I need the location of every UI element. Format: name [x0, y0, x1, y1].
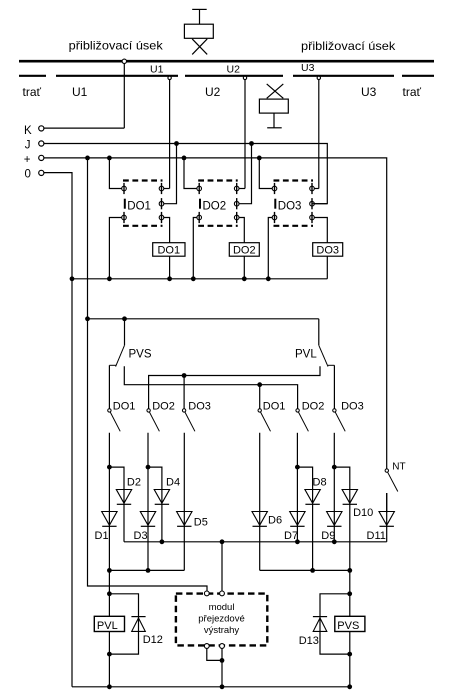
svg-text:DO3: DO3	[316, 245, 339, 257]
svg-text:D9: D9	[321, 530, 335, 542]
junction node (124.5,318.8)	[122, 316, 127, 321]
wire cathode bus	[124, 541, 387, 543]
diode D12	[131, 617, 145, 632]
svg-text:D8: D8	[313, 477, 327, 489]
wire bus PVS PVL	[88, 318, 319, 320]
relay coil PVS box	[335, 616, 365, 631]
wire PVS left throw	[108, 365, 110, 408]
pin DO3 left-bottom	[272, 212, 277, 223]
junction node (87.5,318.8)	[85, 316, 90, 321]
track line bottom segment U2	[185, 75, 283, 77]
junction node (109.4,157.9)	[107, 156, 112, 161]
wire DO1 right-bottom to box	[164, 218, 170, 243]
junction node (297.4,467.1)	[295, 465, 300, 470]
wire D3 column	[147, 433, 149, 571]
wire DO2 right-mid to J	[239, 144, 252, 204]
pin DO1 right-mid	[159, 198, 164, 209]
diode D8	[305, 490, 320, 505]
wire DO1 left-top to plus	[109, 158, 121, 189]
terminal module right-bottom	[220, 644, 225, 649]
junction node (109.4,654.1)	[107, 652, 112, 657]
wire DO1 left-bottom to rail	[109, 218, 121, 279]
pin DO3 right-mid	[310, 198, 315, 209]
wire NT to D11	[386, 493, 388, 513]
svg-text:K: K	[24, 125, 32, 137]
diode D7	[290, 512, 305, 527]
track line bottom segment U3	[293, 75, 394, 77]
junction node (334.3,467.1)	[332, 465, 337, 470]
junction node (312.6,570.4)	[310, 568, 315, 573]
svg-text:přibližovací úsek: přibližovací úsek	[301, 39, 396, 53]
junction node (87.5,157.9)	[85, 156, 90, 161]
box DO2	[229, 243, 259, 257]
junction node (184,157.9)	[182, 156, 187, 161]
wire DO1 right-mid to J	[164, 144, 177, 204]
svg-text:DO2: DO2	[302, 400, 325, 412]
terminal K	[39, 126, 44, 131]
svg-text:U3: U3	[361, 85, 377, 99]
svg-text:D10: D10	[353, 507, 373, 519]
svg-text:D2: D2	[127, 477, 141, 489]
junction node (259.3,157.9)	[257, 156, 262, 161]
junction node (334.3,541.8)	[332, 539, 337, 544]
diode D5	[177, 512, 192, 527]
terminal module right-top	[220, 591, 225, 596]
junction node (349.7,654.1)	[347, 652, 352, 657]
diode D9	[327, 512, 342, 527]
svg-text:PVS: PVS	[337, 620, 359, 632]
junction node (169.6,278.8)	[167, 276, 172, 281]
junction node (222,541.8)	[220, 539, 225, 544]
pin DO1 left-bottom	[122, 212, 127, 223]
svg-text:PVS: PVS	[129, 349, 152, 361]
terminal module left-top	[204, 591, 209, 596]
junction node (109.4,686.8)	[107, 684, 112, 689]
junction node (161.9,541.8)	[160, 539, 165, 544]
pin DO3 right-bottom	[310, 212, 315, 223]
junction node (222,660.4)	[220, 658, 225, 663]
wire PVS right throw	[124, 366, 297, 408]
junction node (297.4,541.8)	[295, 539, 300, 544]
relay DO1 dashed box	[123, 181, 163, 226]
pin DO2 right-bottom	[234, 212, 239, 223]
svg-text:DO1: DO1	[127, 200, 151, 212]
wire D2 branch	[109, 467, 124, 542]
diode D12 branch	[109, 594, 138, 654]
svg-text:trať: trať	[403, 85, 422, 99]
svg-text:D6: D6	[268, 515, 282, 527]
wire D10 branch	[334, 467, 350, 616]
wire plus horizontal	[44, 158, 387, 469]
track line bottom segment trat right	[402, 75, 434, 77]
wire box DO1 to rail	[169, 256, 171, 279]
wire right collect	[260, 569, 350, 571]
svg-text:DO2: DO2	[152, 400, 175, 412]
contact DO2 right	[296, 409, 309, 432]
svg-text:+: +	[24, 154, 31, 166]
svg-text:D4: D4	[166, 477, 180, 489]
wire left collect	[109, 569, 184, 571]
contact DO3 left	[182, 409, 194, 432]
pin DO1 left-top	[122, 183, 127, 194]
wire D4 branch	[148, 467, 162, 542]
svg-text:trať: trať	[23, 85, 42, 99]
terminal J	[39, 141, 44, 146]
junction node (349.8,570.4)	[347, 568, 352, 573]
svg-text:modul: modul	[209, 602, 235, 613]
wire branch DO3 left contact	[183, 376, 185, 409]
wire D9 column	[333, 433, 335, 542]
junction node (259.7,384.7)	[257, 382, 262, 387]
pin DO2 right-mid	[234, 198, 239, 209]
node U3	[317, 76, 320, 188]
svg-text:U1: U1	[72, 85, 88, 99]
svg-text:DO3: DO3	[188, 400, 211, 412]
terminal plus	[39, 155, 44, 160]
junction node (251.5,143.5)	[249, 141, 254, 146]
node U1	[168, 76, 171, 188]
wire PVL coil to rail	[108, 632, 110, 687]
junction node (349.7,686.8)	[347, 684, 352, 689]
svg-text:výstrahy: výstrahy	[204, 625, 240, 636]
wire K horizontal	[44, 127, 125, 129]
relay DO3 dashed box	[274, 181, 314, 226]
contact PVS	[109, 345, 124, 366]
wire module bottom terminals	[207, 648, 222, 660]
wire module to rail	[221, 648, 223, 686]
module dashed box	[176, 594, 267, 646]
junction node (193.3,278.8)	[191, 276, 196, 281]
wire D6 column	[259, 433, 261, 571]
wire DO3 left-top to plus	[259, 158, 272, 189]
junction node (109.4,467.1)	[107, 465, 112, 470]
diode D10	[342, 490, 357, 505]
contact DO1 left	[108, 409, 120, 432]
terminal module left-bottom	[204, 644, 209, 649]
contact NT	[385, 469, 398, 492]
wire J horizontal	[44, 144, 328, 204]
svg-text:D1: D1	[95, 530, 109, 542]
junction node (184.1,375.5)	[182, 373, 187, 378]
relay coil PVL box	[94, 616, 124, 631]
terminal 0	[39, 170, 44, 175]
pin DO1 right-top	[159, 183, 164, 194]
svg-text:PVL: PVL	[97, 620, 118, 632]
contact DO3 right	[333, 409, 346, 432]
pin DO1 left-mid stub	[124, 199, 126, 209]
wire DO2 left-top to plus	[184, 158, 197, 189]
diode D13 branch	[320, 594, 350, 654]
pin DO1 right-bottom	[159, 212, 164, 223]
svg-text:DO1: DO1	[157, 245, 180, 257]
wire DO3 right-top to U3	[314, 188, 319, 190]
wire PVS common	[124, 319, 126, 346]
wire K to track	[123, 64, 125, 129]
box DO3	[313, 243, 343, 257]
track line top	[19, 60, 434, 63]
wire DO3 right-mid to J	[314, 203, 327, 205]
wire DO2 right-bottom to box	[239, 218, 244, 243]
wire DO3 left-bottom to rail	[268, 218, 272, 279]
node K on track	[122, 59, 126, 63]
contact DO1 right	[258, 409, 271, 432]
svg-text:NT: NT	[392, 461, 405, 472]
junction node (244.3,278.8)	[242, 276, 247, 281]
diode D6	[252, 512, 267, 527]
junction node (148,570.4)	[146, 568, 151, 573]
diode D3	[140, 512, 155, 527]
svg-text:0: 0	[25, 168, 31, 180]
junction node (268.3,278.8)	[266, 276, 271, 281]
junction node (109.4,570.4)	[107, 568, 112, 573]
wire module right-top to bus	[221, 542, 223, 591]
contact PVL	[319, 345, 335, 366]
wire PVL common	[318, 319, 320, 346]
svg-text:D11: D11	[367, 530, 386, 542]
svg-text:přejezdové: přejezdové	[198, 614, 244, 625]
svg-text:PVL: PVL	[295, 349, 317, 361]
svg-text:D12: D12	[143, 634, 163, 646]
svg-text:J: J	[25, 140, 31, 152]
svg-text:D13: D13	[299, 635, 319, 647]
wire D11 column	[386, 493, 388, 542]
wire D8 branch	[297, 467, 312, 570]
wire DO2 right-top to U2	[239, 188, 245, 190]
svg-text:přibližovací úsek: přibližovací úsek	[69, 39, 164, 53]
svg-text:U1: U1	[150, 64, 164, 76]
crossing signal symbol top	[184, 9, 213, 54]
node U2	[243, 76, 246, 188]
svg-text:D5: D5	[194, 516, 208, 528]
svg-text:U2: U2	[227, 64, 241, 76]
diode D13	[313, 617, 327, 632]
svg-text:DO1: DO1	[263, 400, 286, 412]
svg-text:DO3: DO3	[341, 400, 364, 412]
junction node (148,467.1)	[146, 465, 151, 470]
svg-text:U3: U3	[301, 62, 315, 74]
wire PVL left throw	[149, 366, 320, 408]
track line bottom segment U1	[56, 75, 178, 77]
diode D2	[116, 490, 131, 505]
diode D4	[154, 490, 169, 505]
wire box DO3 to rail	[326, 256, 328, 279]
wire D1 column	[108, 433, 110, 617]
pin DO2 left-top	[197, 183, 202, 194]
box DO1	[153, 243, 185, 257]
junction node (109.4,593.8)	[107, 591, 112, 596]
junction node (72,278.8)	[70, 276, 75, 281]
pin DO3 right-top	[310, 183, 315, 194]
svg-text:D7: D7	[284, 530, 298, 542]
pin DO2 left-bottom	[197, 212, 202, 223]
contact DO2 left	[147, 409, 159, 432]
wire D7 column	[296, 433, 298, 542]
wire D5 column	[183, 433, 185, 571]
svg-text:DO3: DO3	[278, 200, 302, 212]
svg-text:DO1: DO1	[113, 400, 136, 412]
wire branch DO1 right contact	[259, 385, 261, 409]
pin DO3 left-mid stub	[274, 199, 276, 209]
crossing signal symbol U2	[259, 84, 288, 128]
junction node (222,686.8)	[220, 684, 225, 689]
track line bottom segment trat left	[19, 75, 46, 77]
junction node (349.7,593.8)	[347, 591, 352, 596]
svg-text:U2: U2	[205, 85, 221, 99]
wire plus to module	[88, 158, 208, 591]
svg-text:DO2: DO2	[203, 200, 227, 212]
pin DO3 left-top	[272, 183, 277, 194]
diode D1	[102, 512, 117, 527]
svg-text:DO2: DO2	[233, 245, 256, 257]
wire DO1 right-top to U1	[164, 188, 170, 190]
pin DO2 left-mid stub	[199, 199, 201, 209]
wire rail node 0	[72, 278, 327, 280]
wire 0	[44, 173, 72, 687]
wire PVS coil to rail	[349, 632, 351, 687]
svg-text:D3: D3	[134, 530, 148, 542]
wire bottom rail	[72, 686, 350, 688]
junction node (109.4,278.8)	[107, 276, 112, 281]
wire DO2 left-bottom to rail	[193, 218, 197, 279]
diode D11	[379, 512, 394, 527]
pin DO2 right-top	[234, 183, 239, 194]
relay DO2 dashed box	[198, 181, 238, 226]
wire DO3 right-bottom to box	[314, 218, 327, 243]
wire PVL right throw	[333, 365, 335, 408]
junction node (176.5,143.5)	[174, 141, 179, 146]
wire box DO2 to rail	[243, 256, 245, 279]
